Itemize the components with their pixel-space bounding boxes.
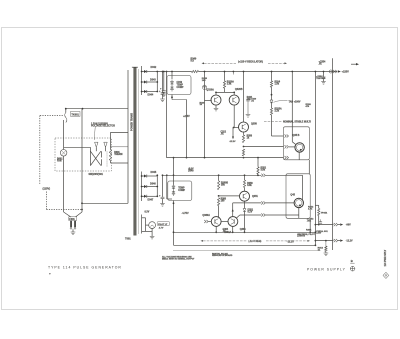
box1 chevrons bbox=[285, 134, 289, 159]
revision mark B bbox=[350, 259, 354, 263]
label R320 bbox=[200, 102, 206, 106]
svg-text:(115V): (115V) bbox=[43, 186, 51, 190]
label R321 bbox=[247, 97, 253, 101]
svg-text:-12.2V: -12.2V bbox=[229, 141, 236, 143]
annotation multivibrator bbox=[264, 120, 311, 123]
capacitor C320 bbox=[246, 99, 257, 114]
transistor Q351 bbox=[240, 188, 259, 202]
plug chevrons row B bbox=[261, 201, 294, 204]
transistor Q45 chassis bbox=[290, 193, 303, 207]
label SW601 bbox=[89, 174, 104, 176]
ground under C345 bbox=[160, 199, 165, 207]
wire box2 down bbox=[309, 218, 311, 233]
line2 low rail bbox=[163, 174, 261, 176]
capacitor C345 bbox=[159, 174, 164, 198]
wire Q35 emitter bbox=[298, 152, 300, 160]
junction mid wire bbox=[243, 146, 245, 148]
svg-text:D349: D349 bbox=[188, 169, 194, 172]
diode D346 bbox=[141, 183, 158, 188]
wire Q350 base bbox=[233, 127, 239, 129]
wire heater tap bbox=[142, 218, 153, 232]
svg-text:-4.75V: -4.75V bbox=[182, 212, 189, 215]
transistor Q350 bbox=[239, 122, 258, 132]
wire Q350 collector bbox=[243, 132, 245, 135]
junction on primary feed bbox=[82, 108, 84, 110]
transformer label vertical bbox=[130, 113, 133, 131]
ground at plug bbox=[71, 229, 76, 234]
diode D344 bbox=[141, 90, 158, 97]
svg-text:6.8k: 6.8k bbox=[247, 185, 252, 187]
wire D381 to plug bbox=[237, 215, 262, 218]
ground under pilot bbox=[150, 229, 155, 239]
wire into Q35 bbox=[289, 146, 295, 148]
power transistor box upper bbox=[284, 127, 310, 160]
capacitor C342 bbox=[159, 71, 164, 95]
base arrow Q380A bbox=[204, 220, 211, 223]
svg-text:D345: D345 bbox=[151, 171, 157, 174]
svg-text:VOLTAGE SELECTOR: VOLTAGE SELECTOR bbox=[91, 124, 115, 127]
secondary winding S2 bbox=[141, 172, 143, 202]
label -4.75v bbox=[182, 212, 189, 215]
junction rail box1 bbox=[171, 71, 173, 73]
svg-text:F601: F601 bbox=[69, 218, 75, 221]
diode D327 bbox=[270, 100, 301, 104]
note voltage readings bbox=[162, 256, 195, 261]
svg-text:R384: R384 bbox=[306, 229, 312, 232]
connector out 1 bbox=[334, 223, 351, 227]
svg-text:POWER TRANS: POWER TRANS bbox=[130, 113, 133, 131]
junction rail Q320B bbox=[233, 71, 235, 75]
svg-text:B: B bbox=[351, 259, 353, 263]
svg-text:Q381: Q381 bbox=[240, 228, 247, 231]
wire bottom primary horizontal bbox=[82, 202, 128, 204]
label -12.2V bbox=[287, 241, 294, 244]
regulator span annotation bbox=[202, 60, 288, 64]
wire to Q380A bbox=[218, 206, 220, 217]
crossover wires X bbox=[90, 147, 101, 165]
svg-text:D342: D342 bbox=[151, 66, 157, 69]
svg-text:LIGHTS: LIGHTS bbox=[297, 236, 306, 238]
wire Q380A emitter bbox=[215, 226, 217, 233]
primary winding W1 bbox=[101, 151, 103, 157]
thermal cutout TK601 bbox=[65, 108, 80, 123]
wire Q320A base bbox=[205, 100, 212, 102]
rectifier bus top bbox=[156, 71, 158, 93]
fuse F601 label bbox=[69, 217, 77, 221]
capacitor C354 bbox=[319, 61, 327, 79]
svg-text:6.3V: 6.3V bbox=[145, 212, 150, 214]
svg-text:-12.2V: -12.2V bbox=[287, 241, 294, 244]
resistor R352 bbox=[308, 205, 328, 225]
line plug P601 bbox=[70, 221, 76, 229]
svg-text:Q35 B: Q35 B bbox=[293, 134, 300, 137]
svg-text:C349: C349 bbox=[177, 81, 183, 84]
wire aux lower bbox=[166, 174, 172, 199]
label 115V bbox=[43, 186, 51, 190]
svg-text:TK601: TK601 bbox=[71, 113, 79, 116]
svg-text:T601: T601 bbox=[125, 238, 131, 241]
svg-text:MEAS. WITH NO SIGNAL OUTPUT: MEAS. WITH NO SIGNAL OUTPUT bbox=[162, 257, 195, 260]
svg-text:-12.2V: -12.2V bbox=[346, 241, 353, 243]
svg-text:(+225-V REGULATOR): (+225-V REGULATOR) bbox=[238, 60, 263, 63]
ground under C342 bbox=[160, 94, 165, 101]
svg-text:+225V: +225V bbox=[342, 71, 350, 74]
interstage vertical wire bbox=[171, 95, 187, 159]
primary winding W2 bbox=[101, 159, 103, 165]
dashed lower leg bbox=[47, 192, 83, 211]
rail +225V bbox=[157, 71, 336, 73]
plug chevrons row A bbox=[261, 174, 302, 200]
right bus B bbox=[332, 58, 334, 250]
svg-text:D347: D347 bbox=[148, 198, 154, 201]
svg-text:Q320B: Q320B bbox=[235, 88, 243, 91]
wire Q320B collector bbox=[233, 105, 235, 137]
label 225v small bbox=[183, 116, 190, 118]
transistor Q320B bbox=[229, 88, 243, 105]
label R381A bbox=[223, 228, 232, 234]
svg-text:THERM: THERM bbox=[114, 154, 122, 156]
margin diamond bbox=[383, 272, 389, 278]
svg-text:-90V: -90V bbox=[346, 225, 351, 227]
svg-text:FAN: FAN bbox=[57, 159, 62, 162]
svg-text:Q45: Q45 bbox=[290, 193, 295, 196]
heater winding S3 bbox=[141, 215, 143, 234]
wire Q381 collector up bbox=[232, 203, 234, 217]
wire fan to plug bbox=[64, 156, 71, 217]
label TP225 bbox=[316, 76, 326, 80]
ground under C341 bbox=[162, 92, 167, 96]
label graticule lights bbox=[157, 222, 169, 230]
column R324 bbox=[271, 71, 273, 81]
capacitor C352 bbox=[307, 219, 322, 224]
svg-text:TYPE 114 PULSE GENERATOR: TYPE 114 PULSE GENERATOR bbox=[48, 266, 122, 270]
zener D351 bbox=[243, 201, 254, 214]
wire Q45 emitter bbox=[298, 208, 300, 219]
label selector note bbox=[91, 123, 115, 141]
top right arrow bbox=[351, 63, 359, 65]
resistor R380B bbox=[218, 175, 229, 190]
interstage wire 2 bbox=[173, 201, 175, 246]
label R326 bbox=[306, 104, 312, 108]
wire connector row 2 bbox=[315, 240, 333, 242]
svg-text:PILOT LT: PILOT LT bbox=[158, 224, 168, 226]
svg-text:D343: D343 bbox=[150, 79, 156, 82]
svg-text:6.2V: 6.2V bbox=[248, 211, 253, 213]
diode D345 bbox=[141, 171, 158, 177]
capacitor column C341 bbox=[160, 71, 166, 93]
svg-text:114 PWR SPLY: 114 PWR SPLY bbox=[384, 249, 387, 266]
label 6.3v bbox=[145, 212, 150, 214]
secondary winding line bbox=[138, 69, 140, 234]
resistor R357 bbox=[242, 149, 244, 159]
svg-text:1.8k: 1.8k bbox=[227, 83, 232, 85]
svg-text:COMP: COMP bbox=[177, 87, 184, 89]
span annotation -12v bbox=[201, 240, 311, 243]
svg-text:2.2k: 2.2k bbox=[275, 110, 280, 112]
wire Q350 emitter bbox=[243, 71, 245, 123]
connector out 2 bbox=[334, 239, 353, 243]
resistor R320A bbox=[223, 71, 234, 89]
svg-text:TAB +100V: TAB +100V bbox=[289, 101, 301, 104]
resistor R325A bbox=[270, 103, 282, 115]
label R384 bbox=[306, 229, 312, 232]
wire to connector top bbox=[272, 135, 284, 137]
resistor R356 bbox=[242, 135, 252, 143]
svg-text:POWER SUPPLY: POWER SUPPLY bbox=[307, 268, 346, 272]
emitter pair bar bbox=[215, 88, 235, 95]
resistor R351 bbox=[257, 158, 267, 175]
zener D320 bbox=[202, 78, 208, 90]
pilot lamp B601 bbox=[149, 222, 156, 229]
ground under C354 bbox=[321, 78, 326, 84]
dashed selector box bbox=[55, 138, 111, 171]
title power supply bbox=[307, 266, 355, 271]
temp comp box C349 bbox=[167, 72, 191, 95]
note above box2 bbox=[188, 169, 194, 173]
svg-text:1.5k: 1.5k bbox=[275, 83, 280, 85]
svg-text:Q351: Q351 bbox=[252, 195, 259, 198]
svg-text:+: + bbox=[49, 272, 51, 276]
wire winding top link bbox=[111, 146, 129, 148]
svg-text:TP354: TP354 bbox=[321, 212, 328, 215]
dashed link to TK601 bbox=[40, 115, 64, 117]
transistor Q320A bbox=[206, 89, 221, 105]
svg-text:Q380A: Q380A bbox=[202, 214, 210, 217]
mid rail bbox=[167, 157, 284, 159]
label heaters bbox=[297, 233, 316, 238]
wire winding bottom link bbox=[111, 162, 129, 164]
transistor Q381B bbox=[228, 217, 246, 232]
svg-text:D346: D346 bbox=[150, 183, 156, 186]
resistor R354 bbox=[318, 240, 327, 252]
switch linkage dashed bbox=[106, 152, 108, 167]
diode D342 bbox=[141, 66, 158, 73]
junction line2 box2 bbox=[173, 157, 175, 177]
wire Q35 collector bbox=[292, 127, 296, 145]
svg-text:Q350: Q350 bbox=[251, 123, 258, 126]
wire left vertical to fuse bbox=[75, 109, 82, 217]
svg-text:COMP: COMP bbox=[178, 190, 185, 192]
label C384 bbox=[223, 228, 229, 233]
box link vertical bbox=[308, 160, 310, 174]
plug chevrons row C bbox=[261, 213, 299, 216]
title type 114 bbox=[48, 266, 122, 276]
long vertical D320 column bbox=[204, 71, 206, 158]
resistor R324 bbox=[270, 81, 280, 88]
wire R325 down bbox=[271, 115, 273, 136]
ground under R354 bbox=[324, 252, 329, 256]
label C352A bbox=[316, 230, 328, 235]
wire primary feed horizontal bbox=[66, 108, 128, 110]
svg-text:NOMINAL STABLE MULTI: NOMINAL STABLE MULTI bbox=[283, 120, 311, 123]
arrow to neg bbox=[229, 137, 236, 144]
temp comp box C383 bbox=[168, 158, 192, 201]
resistor R380 bbox=[218, 198, 227, 206]
svg-text:+25V: +25V bbox=[316, 233, 322, 235]
label T601 bbox=[125, 238, 131, 241]
svg-text:REGULATOR BOARD: REGULATOR BOARD bbox=[212, 254, 233, 257]
svg-text:+225V: +225V bbox=[183, 116, 190, 118]
wire to connector mid bbox=[244, 146, 284, 148]
svg-text:3.9k: 3.9k bbox=[261, 169, 266, 171]
transistor Q380A bbox=[202, 214, 221, 227]
junction fuse tap bbox=[81, 202, 83, 204]
ground under C320 bbox=[246, 115, 251, 118]
junction base node bbox=[218, 195, 220, 197]
selector contact 230V bbox=[104, 142, 107, 151]
fan motor B601 bbox=[57, 120, 90, 162]
minus rail bbox=[174, 244, 317, 246]
heater rail bbox=[174, 231, 316, 233]
ground Q320A emitter bbox=[214, 105, 219, 111]
svg-text:(-12-V REG): (-12-V REG) bbox=[249, 241, 262, 243]
margin text vertical bbox=[384, 249, 387, 266]
power transistor box lower bbox=[286, 174, 310, 219]
thin lower rail bbox=[173, 250, 321, 252]
thermistor R601 bbox=[109, 132, 128, 163]
wire aux top bbox=[166, 71, 168, 158]
transistor Q35 chassis bbox=[293, 134, 305, 152]
transformer T601 core bbox=[132, 67, 138, 235]
svg-text:D344: D344 bbox=[148, 94, 154, 97]
dashed enclosure left bbox=[39, 116, 41, 185]
secondary winding S1 bbox=[141, 66, 143, 95]
wire Q351 base bbox=[219, 195, 240, 197]
wire rail to box bbox=[291, 71, 293, 127]
note partial board bbox=[212, 252, 233, 257]
wire Q381 collector to plug bbox=[233, 202, 262, 204]
svg-text:Q320A: Q320A bbox=[206, 89, 214, 92]
right bus A bbox=[315, 71, 317, 246]
wire Q380A collector link bbox=[221, 221, 228, 223]
diode D347 bbox=[141, 195, 158, 202]
wire Q381 emitter bbox=[232, 226, 234, 233]
diode D343 bbox=[141, 79, 158, 84]
junction D327 bbox=[271, 87, 273, 100]
resistor R349 in rail bbox=[191, 58, 199, 73]
selector contact 115V bbox=[95, 142, 98, 151]
svg-text:SW(230V)601: SW(230V)601 bbox=[89, 174, 104, 176]
rectifier bus 2 bbox=[156, 174, 158, 197]
connector +225V out bbox=[329, 70, 349, 74]
wire primary left column bbox=[127, 70, 129, 203]
svg-text:4.7V: 4.7V bbox=[159, 227, 164, 230]
label C322 bbox=[221, 132, 227, 136]
wire connector row 1 bbox=[315, 224, 333, 226]
resistor R350 bbox=[243, 175, 253, 187]
wire D351 down bbox=[244, 211, 246, 233]
